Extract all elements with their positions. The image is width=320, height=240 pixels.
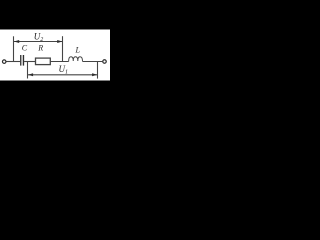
svg-text:R: R xyxy=(37,44,43,53)
svg-text:L: L xyxy=(75,46,81,55)
svg-text:C: C xyxy=(22,44,28,53)
